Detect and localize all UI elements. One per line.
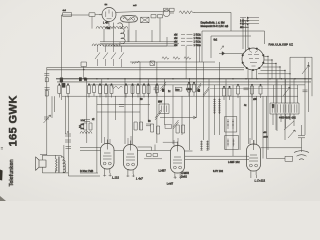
label tube V3 bbox=[112, 176, 119, 180]
resistor group E bbox=[131, 83, 140, 97]
capacitor K2 bbox=[244, 88, 249, 90]
label tube V2 bbox=[269, 43, 294, 47]
label misc5 bbox=[244, 99, 257, 107]
wire V1 drop bbox=[108, 22, 110, 27]
capacitor C5 pair top bbox=[164, 8, 175, 11]
wires cascade deep bbox=[268, 57, 290, 150]
label tube V6 bbox=[255, 179, 266, 183]
fuse Si1 bbox=[89, 13, 102, 29]
note text right bbox=[240, 19, 249, 28]
resistor group G bbox=[156, 82, 167, 97]
resistor group J bbox=[223, 86, 232, 100]
svg-text:LL4B7: LL4B7 bbox=[159, 170, 167, 173]
svg-text:6.3Y 102: 6.3Y 102 bbox=[213, 170, 224, 173]
bus wire y88 bbox=[210, 88, 298, 90]
wires tube V2 bottom bbox=[248, 69, 257, 79]
resistor group A bbox=[58, 83, 70, 97]
label tube V4 bbox=[136, 177, 143, 181]
wire bottom left link bbox=[80, 148, 101, 174]
wire vertical x47 bbox=[46, 67, 48, 155]
label terminal strip bbox=[272, 103, 296, 119]
bus wire y67 pair bbox=[47, 67, 244, 69]
bus wire main y79 bbox=[56, 78, 312, 80]
pot arrow P1 bbox=[44, 115, 51, 123]
resistor group K bbox=[237, 84, 240, 98]
wire V6 right bbox=[261, 148, 302, 159]
capacitor C4 pair bbox=[151, 15, 163, 18]
resistor M4 bbox=[151, 124, 160, 134]
label rows left mid bbox=[81, 119, 86, 130]
bus wire y85 bbox=[88, 84, 305, 86]
wire speaker links bbox=[42, 145, 64, 173]
label heater bbox=[213, 160, 240, 173]
resistor M3 wiggle bbox=[155, 110, 161, 120]
earth ground bbox=[294, 151, 309, 160]
resistor R7 bbox=[45, 78, 48, 82]
svg-text:1 5ΩΔ: 1 5ΩΔ bbox=[194, 36, 202, 40]
bus wire y96 bbox=[62, 95, 298, 97]
wire verticals right bbox=[204, 57, 309, 156]
shield box outer bbox=[202, 31, 265, 62]
IF can box1 bbox=[225, 117, 237, 133]
tube V4 bbox=[124, 141, 138, 175]
title 165 GWK bbox=[8, 95, 20, 146]
tube V2 pins bbox=[242, 48, 265, 71]
label DW left bbox=[80, 170, 94, 173]
wire mains top bbox=[62, 14, 90, 16]
svg-text:L+M7: L+M7 bbox=[167, 183, 174, 186]
svg-text:400: 400 bbox=[272, 103, 275, 108]
diag resistor row bbox=[95, 46, 124, 67]
rectifier tube V1 bbox=[99, 8, 118, 22]
wire arrow mid bbox=[160, 116, 196, 119]
bumps row bottom-left bbox=[80, 132, 92, 134]
wire table drops bbox=[186, 45, 199, 79]
IF transformer T1 bbox=[213, 99, 220, 115]
resistor group H bbox=[188, 82, 202, 96]
wiggle row mid bbox=[162, 57, 191, 60]
wire heater row bbox=[185, 156, 249, 159]
speaker LS bbox=[36, 157, 46, 171]
svg-text:165 GWK: 165 GWK bbox=[8, 95, 20, 146]
svg-text:L 4x7: L 4x7 bbox=[136, 177, 143, 181]
resistor group F bbox=[143, 83, 151, 97]
svg-text:L.121: L.121 bbox=[112, 176, 119, 180]
contact row B bbox=[240, 20, 259, 23]
wire to box bbox=[194, 12, 231, 31]
wire tube leads bbox=[103, 173, 256, 179]
label misc2 bbox=[168, 91, 171, 93]
capacitor right bbox=[303, 90, 308, 92]
label misc4 bbox=[263, 132, 269, 139]
box 500 bbox=[175, 87, 182, 91]
svg-text:Telefunken: Telefunken bbox=[9, 159, 15, 186]
label misc6 bbox=[148, 121, 151, 123]
paper corner mark bottom-left bbox=[0, 170, 6, 202]
wire bottom lines bbox=[100, 42, 179, 46]
wires contact drops bbox=[243, 18, 248, 53]
svg-text:L4MF 102: L4MF 102 bbox=[228, 160, 240, 164]
box left edge bbox=[81, 62, 87, 79]
wire pin drops tubes bbox=[105, 136, 255, 146]
cascade dots bbox=[267, 56, 290, 75]
coil box left bbox=[158, 102, 169, 114]
lamp La1 bbox=[163, 10, 174, 17]
coil L3 oval bbox=[121, 16, 138, 23]
svg-text:1 5ΩΔ: 1 5ΩΔ bbox=[194, 43, 202, 47]
wire verticals center bbox=[87, 46, 197, 173]
contact row A bbox=[240, 17, 259, 20]
mixer tube V2 bbox=[242, 48, 264, 70]
label L+M7 bbox=[167, 183, 174, 186]
wires tube cascade bbox=[258, 56, 312, 140]
label tube V1 bbox=[103, 21, 111, 30]
IF can box2 bbox=[225, 136, 239, 150]
capacitor stack left bbox=[65, 131, 71, 148]
capacitor C6 blob bbox=[60, 78, 65, 88]
capacitor G1 bbox=[298, 125, 305, 152]
diag wiggle under Xbox bbox=[132, 61, 140, 64]
resistor wiggle I bbox=[203, 87, 209, 97]
resistor M1 bbox=[134, 122, 143, 130]
note text Empfindlichk bbox=[201, 21, 229, 27]
coil L2 loops bbox=[118, 23, 126, 44]
transformer Tr1 bbox=[56, 157, 66, 173]
margin mark bbox=[1, 148, 3, 150]
svg-text:Dx62: Dx62 bbox=[181, 175, 187, 178]
svg-text:L 4R: L 4R bbox=[103, 21, 109, 25]
svg-text:1 5ΩΔ: 1 5ΩΔ bbox=[194, 33, 202, 37]
switch box X bbox=[141, 17, 150, 23]
svg-text:1ΩΔ: 1ΩΔ bbox=[81, 119, 86, 122]
svg-text:Messpunkt N-R 2,5V. mβ: Messpunkt N-R 2,5V. mβ bbox=[201, 25, 229, 28]
tube V6 output bbox=[247, 140, 261, 175]
capacitor C8 bbox=[45, 88, 50, 97]
capacitor F2 bbox=[154, 84, 159, 94]
resistor group B bbox=[88, 83, 96, 97]
pot arrow G2 bbox=[288, 130, 295, 138]
capacitor C2 bbox=[121, 16, 138, 23]
wire mid h2 bbox=[97, 104, 150, 112]
svg-text:D.Wxx 7MB: D.Wxx 7MB bbox=[80, 170, 94, 173]
wire coil drop bbox=[128, 23, 130, 42]
wire anode top bbox=[116, 11, 163, 14]
svg-text:L4Mx: L4Mx bbox=[186, 88, 193, 91]
pot arrow L2 bbox=[283, 87, 290, 96]
box right of V6 bbox=[285, 156, 293, 161]
svg-text:x000: x000 bbox=[263, 137, 269, 139]
label LL4B7 bbox=[159, 170, 167, 173]
diode D1 in box bbox=[214, 40, 245, 56]
wire mains vertical bbox=[60, 15, 62, 100]
wire under strip bbox=[273, 114, 294, 131]
label top tiny bbox=[63, 4, 138, 12]
svg-text:1 5ΩΔ: 1 5ΩΔ bbox=[194, 40, 202, 44]
shield box inner bbox=[211, 36, 251, 58]
svg-text:ΔΩ——: ΔΩ—— bbox=[240, 26, 249, 29]
junction dots bus bbox=[61, 78, 306, 80]
wire pair V6 up bbox=[263, 96, 267, 158]
capacitor C7 bbox=[44, 74, 49, 76]
dark box pair mid bbox=[150, 61, 155, 66]
label L4M7 mid bbox=[186, 88, 193, 91]
IF transformer T2 bbox=[200, 141, 208, 151]
switch table rows bbox=[174, 33, 201, 48]
contact row C bbox=[240, 23, 259, 26]
small parts x86 y119 bbox=[80, 120, 92, 131]
capacitor M2 bbox=[146, 124, 151, 126]
resistor M5 bbox=[176, 125, 185, 133]
choke L1 bumps bbox=[96, 26, 128, 28]
winding bumps row2 bbox=[92, 44, 120, 46]
tube V3 AF bbox=[101, 140, 115, 174]
terminal strip TB1 bbox=[270, 103, 299, 114]
tube V5 bbox=[171, 142, 185, 178]
resistor R4 wiggle bbox=[179, 11, 194, 14]
capacitor between tubes bbox=[144, 154, 162, 159]
label misc1 bbox=[140, 99, 143, 101]
wire tube links bbox=[114, 145, 193, 152]
bus wire y62 bbox=[130, 61, 215, 63]
resistor R1 mains bbox=[63, 13, 72, 17]
title Telefunken bbox=[9, 159, 15, 186]
label tube V5 area bbox=[181, 172, 190, 178]
svg-text:L.C+121: L.C+121 bbox=[255, 179, 266, 183]
capacitor N1 bbox=[119, 105, 124, 107]
wire bottom row bbox=[40, 155, 100, 176]
shield box L2 bbox=[114, 23, 168, 47]
label misc3 bbox=[92, 119, 95, 121]
vertical taps bbox=[104, 18, 160, 46]
wire pair left low bbox=[52, 96, 68, 173]
svg-text:xM: xM bbox=[174, 43, 177, 47]
svg-text:xM: xM bbox=[174, 33, 177, 37]
capacitor blobs bus left bbox=[79, 77, 87, 81]
pot arrow R right bbox=[302, 65, 309, 74]
resistor group C bbox=[99, 83, 114, 97]
parts above V5 bbox=[163, 120, 179, 142]
resistor group L bbox=[251, 84, 263, 98]
svg-text:xM: xM bbox=[174, 36, 177, 40]
svg-text:xM: xM bbox=[174, 40, 177, 44]
svg-text:FAH.ULN.KBP UZ: FAH.ULN.KBP UZ bbox=[269, 43, 294, 47]
resistor wiggle D bbox=[112, 83, 128, 97]
bus wire y82 bbox=[57, 81, 311, 83]
